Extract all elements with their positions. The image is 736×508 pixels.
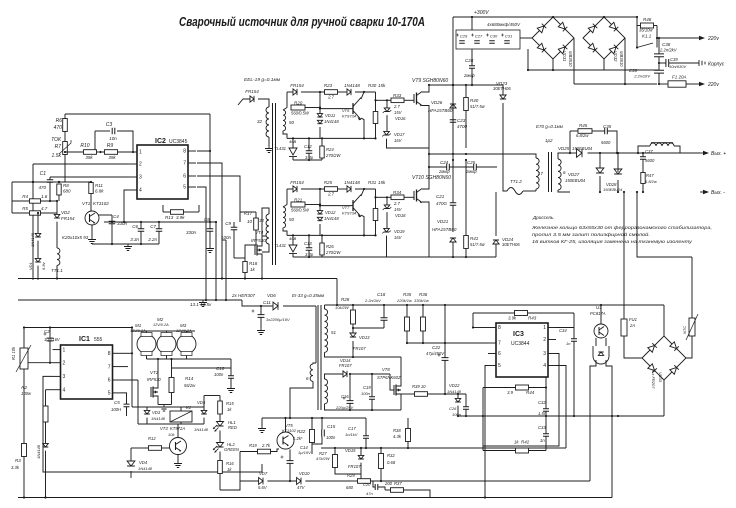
svg-text:47µ/450V: 47µ/450V (426, 351, 445, 356)
svg-text:1k: 1k (250, 267, 256, 272)
wire pin2 row (24, 362, 53, 364)
wire (49, 328, 51, 339)
wire (659, 83, 668, 85)
svg-text:16 витков КГ-25, изоляция заме: 16 витков КГ-25, изоляция заменена на тк… (532, 239, 693, 244)
wire (130, 448, 132, 461)
svg-text:UC3844: UC3844 (511, 341, 530, 347)
transformer TT1.1 winding (57, 248, 60, 265)
svg-text:VD18: VD18 (395, 213, 406, 218)
svg-text:2x HER307: 2x HER307 (231, 293, 256, 298)
svg-text:16V: 16V (394, 235, 403, 240)
svg-text:R1 10k: R1 10k (11, 346, 16, 360)
svg-text:32: 32 (257, 119, 263, 124)
svg-text:10n: 10n (109, 136, 117, 141)
svg-text:220v: 220v (707, 82, 719, 88)
wire r44 (483, 387, 516, 389)
diode VD3 1N4148 (144, 410, 150, 414)
svg-text:2.7k: 2.7k (261, 443, 271, 448)
svg-text:Железное кольцо 63х55х30 от фе: Железное кольцо 63х55х30 от ферроразонам… (531, 225, 712, 230)
wire (545, 388, 547, 409)
wire (556, 327, 574, 329)
resistor R6 (63, 119, 68, 132)
svg-text:MB3510: MB3510 (568, 51, 573, 67)
wire (452, 85, 454, 100)
wire (242, 300, 273, 306)
svg-text:R30: R30 (368, 83, 377, 88)
wire (283, 305, 316, 307)
svg-text:220k/1w: 220k/1w (396, 298, 413, 303)
capacitor C11 (252, 310, 255, 313)
wire (324, 305, 326, 309)
wire mid rail (429, 153, 497, 155)
svg-text:M2: M2 (157, 317, 164, 322)
svg-text:M1: M1 (135, 323, 142, 328)
svg-text:150EBU04: 150EBU04 (603, 187, 623, 192)
wire (497, 154, 536, 158)
resistor R18 (243, 262, 247, 273)
wire TL431 top row (287, 137, 376, 139)
capacitor C4 (99, 214, 113, 216)
svg-text:ТОК: ТОК (51, 137, 62, 143)
svg-text:1: 1 (63, 347, 66, 353)
svg-text:7: 7 (498, 341, 501, 347)
svg-text:7: 7 (108, 364, 111, 370)
wire (422, 85, 429, 92)
wire (642, 184, 644, 193)
svg-text:C12: C12 (304, 144, 312, 149)
svg-text:Дроссель.: Дроссель. (532, 215, 555, 220)
svg-text:ТТ1.2: ТТ1.2 (510, 179, 522, 184)
svg-text:270/2W: 270/2W (325, 250, 341, 255)
svg-text:FR154: FR154 (290, 83, 304, 88)
svg-text:EI-33 g=0.35мм: EI-33 g=0.35мм (292, 293, 324, 298)
wire (658, 63, 660, 70)
svg-text:1n/1kV: 1n/1kV (345, 432, 358, 437)
wire bridge AC right (573, 38, 575, 84)
svg-text:UC3845: UC3845 (169, 139, 188, 145)
svg-text:1N4148: 1N4148 (344, 180, 360, 185)
wire (407, 418, 409, 429)
svg-text:1N4148: 1N4148 (324, 119, 339, 124)
wire (383, 305, 385, 318)
wire (141, 447, 149, 449)
svg-text:6: 6 (498, 351, 501, 357)
wire (658, 38, 660, 54)
resistor R13 (171, 210, 184, 215)
capacitor C8 (209, 151, 211, 229)
svg-text:STP6NK60Z: STP6NK60Z (377, 375, 401, 380)
wire (406, 305, 408, 317)
ground vt5 (261, 418, 263, 426)
svg-text:15V: 15V (394, 207, 403, 212)
svg-text:C36: C36 (629, 68, 638, 73)
wire (177, 424, 179, 438)
svg-text:R5: R5 (22, 206, 28, 211)
svg-text:R39 10: R39 10 (412, 384, 426, 389)
svg-text:KT973A: KT973A (342, 211, 357, 216)
resistor R15 1k (218, 401, 223, 414)
wire (545, 416, 547, 434)
svg-text:3.9k: 3.9k (176, 215, 185, 220)
wire (45, 390, 47, 406)
svg-text:R35: R35 (403, 292, 412, 297)
svg-text:R46: R46 (643, 17, 652, 22)
resistor R24 270/2W (320, 146, 324, 158)
svg-text:6.8v: 6.8v (41, 261, 46, 270)
svg-text:2.7: 2.7 (327, 95, 334, 100)
zener VD17 16V (384, 131, 390, 135)
wire (535, 189, 537, 191)
svg-text:5600: 5600 (645, 158, 655, 163)
svg-text:C17: C17 (348, 426, 356, 431)
T1 core (549, 152, 552, 192)
svg-text:VD6: VD6 (267, 293, 276, 298)
svg-text:1: 1 (139, 150, 142, 156)
svg-text:FR154: FR154 (245, 89, 259, 94)
svg-text:GREEN: GREEN (224, 447, 240, 452)
svg-text:HFA15TB60: HFA15TB60 (428, 108, 453, 113)
svg-text:C11: C11 (263, 300, 271, 305)
resistor R17 (254, 218, 259, 230)
wire (121, 393, 127, 404)
wire (422, 305, 424, 317)
svg-text:R13: R13 (165, 215, 174, 220)
wire (286, 92, 288, 108)
wire pin1 row (65, 151, 84, 153)
svg-text:1n: 1n (540, 438, 545, 443)
svg-text:12V/0.2A: 12V/0.2A (153, 323, 169, 327)
wire channel bottom row (293, 159, 322, 161)
svg-text:C22: C22 (432, 345, 441, 350)
svg-text:C39: C39 (670, 57, 678, 62)
svg-text:IC1: IC1 (79, 336, 90, 343)
wire (371, 374, 373, 397)
svg-text:R29: R29 (347, 473, 355, 478)
wire (387, 236, 430, 257)
svg-text:VT8: VT8 (382, 367, 390, 372)
wire row182 (12, 181, 65, 183)
svg-text:R14: R14 (185, 376, 194, 381)
svg-text:C13: C13 (304, 241, 312, 246)
svg-text:10k/2W: 10k/2W (335, 305, 350, 310)
svg-text:39k: 39k (108, 155, 116, 160)
svg-text:100w: 100w (21, 391, 32, 396)
svg-text:R2: R2 (21, 385, 27, 390)
resistor R40 51/7.5w (464, 98, 469, 111)
svg-text:330n: 330n (186, 230, 197, 235)
resistor R16 1k (218, 461, 223, 474)
svg-text:C9: C9 (225, 221, 231, 226)
svg-text:6.8/2w: 6.8/2w (645, 179, 658, 184)
wire pin7 down (197, 163, 222, 279)
svg-text:R18: R18 (249, 261, 258, 266)
terminal 220v top (699, 36, 705, 40)
wire vd15 feedback row (321, 447, 381, 449)
svg-text:VT10 SGH80N60: VT10 SGH80N60 (412, 175, 451, 181)
wire (452, 160, 454, 203)
wire (203, 407, 205, 410)
svg-text:VD33: VD33 (658, 372, 663, 383)
svg-text:R36: R36 (419, 292, 428, 297)
resistor R8 (58, 182, 60, 183)
svg-text:+300V: +300V (474, 10, 489, 16)
svg-text:FR107: FR107 (353, 346, 366, 351)
svg-text:EEL-19 g=0.1мм: EEL-19 g=0.1мм (244, 77, 281, 83)
svg-text:680: 680 (346, 485, 354, 490)
wire pin5 loop (485, 366, 488, 498)
wire row222 (104, 221, 216, 223)
zener VD16 15V (384, 108, 390, 112)
wire (352, 305, 354, 310)
svg-text:3.3n: 3.3n (130, 237, 139, 242)
wire ch2 bottom link (322, 256, 387, 258)
resistor R26 270/2W (320, 243, 324, 255)
wire (308, 138, 310, 150)
svg-text:5.6V: 5.6V (258, 485, 268, 490)
wire r37 to bottom rail (404, 490, 431, 498)
wire pin3 (50, 176, 129, 178)
EI-33 winding lower (325, 379, 328, 404)
resistor R3 3.3k (22, 444, 27, 457)
svg-text:1N4148: 1N4148 (344, 83, 360, 88)
capacitor C13 (306, 248, 313, 251)
wire (502, 85, 504, 95)
svg-text:R23: R23 (324, 83, 333, 88)
wire (386, 100, 388, 108)
wire feedback loop pin3 (43, 376, 262, 472)
diode VD13 FR107 (350, 333, 356, 337)
wire to EI33 top (315, 306, 317, 363)
diode VD4 1N4148 (127, 461, 135, 466)
svg-text:IRF530: IRF530 (147, 377, 161, 382)
svg-text:4.3k: 4.3k (393, 434, 402, 439)
svg-text:3.9k: 3.9k (508, 316, 517, 321)
svg-text:1N4148: 1N4148 (138, 466, 153, 471)
EEL-19 winding 32 top (266, 107, 269, 137)
svg-text:150EBU04: 150EBU04 (572, 146, 593, 151)
svg-text:10k: 10k (168, 432, 175, 437)
wire (636, 17, 638, 48)
svg-text:C27: C27 (475, 34, 483, 39)
wire pin3 loop (483, 354, 559, 447)
svg-text:2: 2 (543, 337, 546, 343)
svg-text:VD19: VD19 (394, 229, 405, 234)
wire bottom rail left (18, 278, 337, 280)
EI-33 winding left 6 (310, 364, 313, 381)
svg-text:5600: 5600 (601, 140, 611, 145)
svg-text:555: 555 (94, 337, 103, 343)
wire pin4 loop (556, 366, 566, 449)
svg-text:6: 6 (108, 378, 111, 384)
capacitor C29 (456, 34, 459, 37)
wire (385, 489, 391, 491)
svg-text:C15: C15 (327, 424, 336, 429)
wire (349, 374, 351, 401)
wire (422, 160, 429, 189)
svg-text:VD13: VD13 (359, 335, 370, 340)
svg-text:TL431: TL431 (274, 146, 286, 151)
thermistor NTC (689, 318, 695, 336)
wire vt4 drain (262, 236, 266, 241)
svg-text:1N4148: 1N4148 (194, 427, 209, 432)
wire r32 bottom (380, 469, 382, 481)
svg-text:C38: C38 (662, 42, 671, 47)
svg-text:C18: C18 (377, 292, 386, 297)
svg-text:2.2n: 2.2n (147, 237, 157, 242)
svg-text:4: 4 (63, 387, 66, 393)
diode 1N4148 (35, 233, 41, 237)
wire (157, 359, 159, 383)
svg-text:5: 5 (183, 185, 186, 191)
svg-text:R19: R19 (249, 443, 257, 448)
svg-text:100n: 100n (221, 235, 232, 240)
EEL-19 secondary winding 50 ch2 (283, 207, 286, 228)
svg-text:100n: 100n (214, 372, 224, 377)
wire (258, 99, 269, 107)
wire 220v top row (657, 37, 699, 39)
wire 1n4148 col (37, 213, 39, 233)
EEL-19 secondary winding 50 ch1 (283, 110, 286, 131)
svg-text:51/7.5w: 51/7.5w (470, 242, 486, 247)
svg-text:4х680мкф/450V: 4х680мкф/450V (487, 22, 521, 27)
wire (638, 146, 650, 153)
resistor R32 0.68 (379, 454, 384, 469)
wire (600, 305, 602, 324)
wire (365, 418, 367, 436)
capacitor C12 (306, 151, 313, 154)
svg-text:3: 3 (543, 351, 546, 357)
svg-text:47k/2W: 47k/2W (316, 456, 331, 461)
svg-text:6: 6 (183, 174, 186, 180)
wire bottom power rail (429, 256, 496, 258)
wire (336, 356, 401, 358)
wire (37, 241, 39, 259)
capacitor C31 (501, 34, 504, 37)
svg-text:100n: 100n (361, 391, 371, 396)
svg-text:R15: R15 (226, 401, 234, 406)
wire source row (350, 409, 401, 411)
wire (45, 451, 47, 497)
diode VD1 (35, 258, 41, 262)
EI-33 winding 51 (325, 309, 328, 352)
svg-text:VD25: VD25 (558, 146, 570, 151)
wire (429, 166, 447, 168)
svg-text:R28: R28 (341, 297, 350, 302)
wire pin5 down (197, 187, 206, 300)
wire (292, 138, 294, 148)
wire (599, 153, 601, 168)
wire bridge minus (552, 59, 554, 70)
wire row424 (138, 423, 204, 425)
svg-text:VD5: VD5 (197, 400, 206, 405)
svg-text:K20x10x5 93: K20x10x5 93 (62, 235, 89, 240)
svg-text:1.2k*: 1.2k* (293, 436, 303, 441)
svg-text:R42: R42 (521, 440, 530, 445)
wire (495, 192, 497, 236)
svg-text:150EBU04: 150EBU04 (565, 178, 586, 183)
wire (56, 201, 58, 215)
wire (465, 160, 467, 235)
diode 1N4148 ch2 (347, 186, 351, 192)
relay K1 (170, 411, 192, 422)
wire pin4 (124, 190, 129, 222)
wire (400, 357, 402, 381)
svg-text:VT3: VT3 (160, 426, 168, 431)
svg-text:7: 7 (183, 161, 186, 167)
svg-text:2: 2 (63, 360, 66, 366)
svg-text:R16: R16 (226, 461, 234, 466)
wire (23, 457, 25, 498)
capacitor C30 (486, 34, 489, 37)
svg-text:VD32: VD32 (613, 51, 618, 62)
wire (476, 166, 497, 168)
wire (570, 130, 578, 132)
diode VD28 150EBU04 (614, 169, 622, 174)
potentiometer R7 TOK (63, 142, 68, 155)
wire base row (320, 205, 353, 207)
op-amp IC2 UC3845 (137, 145, 188, 199)
svg-text:30ETH06: 30ETH06 (493, 86, 511, 91)
svg-text:FR154: FR154 (61, 216, 75, 221)
svg-text:10n/630V: 10n/630V (669, 64, 686, 69)
svg-text:470G: 470G (436, 201, 448, 206)
svg-text:2A: 2A (629, 323, 635, 328)
svg-text:VD16: VD16 (395, 116, 406, 121)
wire (325, 374, 343, 379)
LED HL1 RED (216, 422, 223, 427)
wire top rail to pin8 (65, 113, 210, 115)
svg-text:R7: R7 (55, 144, 62, 150)
wire (230, 359, 232, 376)
svg-text:C10: C10 (216, 366, 225, 371)
wire (180, 407, 182, 411)
svg-text:1N4148: 1N4148 (447, 389, 462, 394)
svg-text:C5: C5 (114, 400, 120, 405)
resistor R9 (105, 150, 118, 155)
diode FR154 FR154 (293, 186, 297, 192)
wire r28 c18 bottom row (353, 327, 384, 329)
svg-text:C29: C29 (460, 34, 468, 39)
svg-text:1µ/16V: 1µ/16V (298, 450, 311, 455)
diode pair VD11 1N4148 (319, 92, 321, 114)
wire (56, 222, 58, 248)
svg-text:M3: M3 (180, 323, 187, 328)
resistor R10 (84, 150, 97, 155)
wire (503, 150, 507, 191)
svg-text:KT973A: KT973A (342, 114, 357, 119)
svg-text:47n: 47n (366, 491, 373, 496)
svg-text:F1 20A: F1 20A (672, 75, 687, 80)
svg-text:15k: 15k (378, 83, 386, 88)
wire ic1 pin7 stub (121, 366, 129, 368)
svg-text:VT9 SGH80N60: VT9 SGH80N60 (412, 78, 448, 84)
wire (351, 480, 358, 482)
svg-text:VD10: VD10 (299, 471, 310, 476)
wire bridge top feed (663, 305, 665, 336)
svg-text:C1: C1 (40, 171, 47, 177)
diode FR154 in (250, 96, 254, 102)
svg-text:C30: C30 (490, 34, 498, 39)
svg-text:1р2: 1р2 (545, 138, 553, 143)
wire (64, 155, 66, 183)
wire (387, 139, 430, 148)
svg-text:6.8k: 6.8k (95, 189, 104, 194)
svg-text:R8: R8 (63, 183, 69, 188)
wire top power rail (429, 84, 503, 86)
svg-text:R37: R37 (394, 481, 402, 486)
output plus terminal (700, 152, 706, 154)
svg-text:5: 5 (108, 391, 111, 397)
